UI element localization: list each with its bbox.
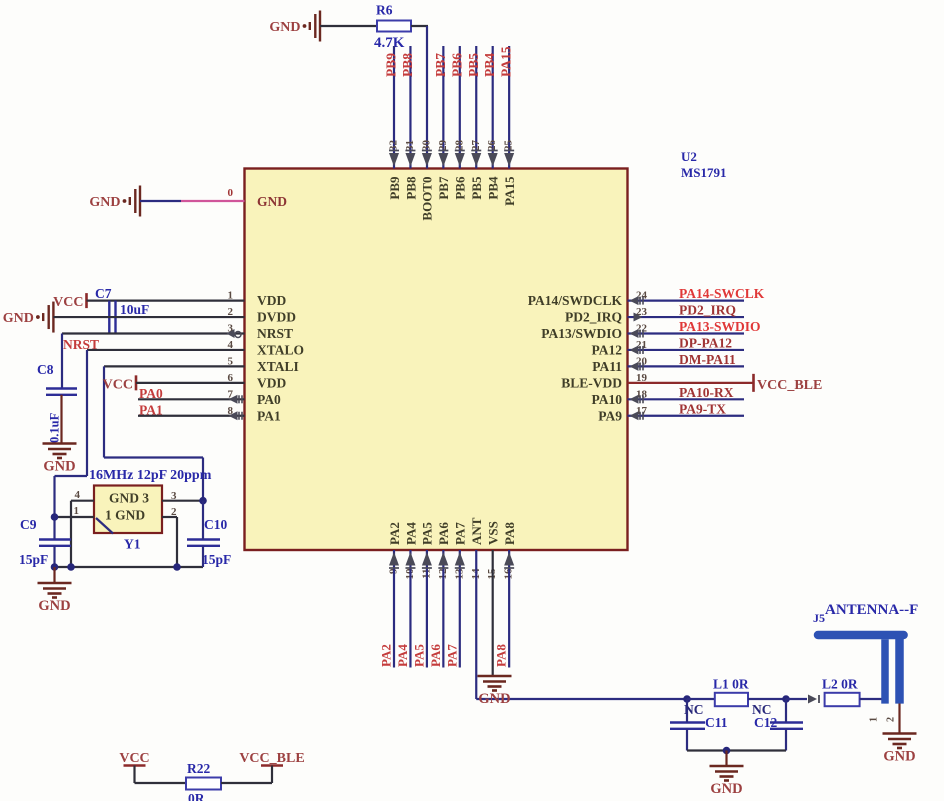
pin arrow 24 <box>630 296 644 305</box>
pin number 2 <box>228 306 234 318</box>
pin number 14 <box>470 568 482 580</box>
pin name VSS bot <box>486 521 501 545</box>
pin arrow J5 pin1 <box>808 695 819 704</box>
svg-text:0R: 0R <box>188 791 205 801</box>
crystal Y1 slash <box>96 518 113 534</box>
svg-text:1 GND: 1 GND <box>105 508 145 523</box>
svg-text:GND: GND <box>710 781 742 797</box>
net label PA8 bottom <box>494 644 509 667</box>
node junction GND antenna <box>723 747 731 755</box>
svg-text:PA15: PA15 <box>499 46 514 77</box>
pin arrow 22 <box>630 329 644 338</box>
svg-text:0.1uF: 0.1uF <box>48 412 62 443</box>
pin arrow top 30 <box>422 151 432 167</box>
wire right pin 17 <box>628 415 745 417</box>
node Y1 pin3 junction <box>199 497 207 505</box>
svg-text:PB4: PB4 <box>486 176 501 200</box>
svg-text:VCC: VCC <box>103 377 133 392</box>
net label PA10-RX <box>679 385 734 400</box>
net label PB5 <box>466 53 481 77</box>
pin name VDD left0 <box>257 293 286 308</box>
pin name PA0 left6 <box>257 392 281 407</box>
net label DM-PA11 <box>679 352 736 367</box>
pin name PA6 bot <box>436 522 451 545</box>
svg-text:PA14-SWCLK: PA14-SWCLK <box>679 286 765 301</box>
label L1 0R <box>713 677 749 692</box>
svg-text:32: 32 <box>388 140 400 152</box>
svg-text:15pF: 15pF <box>202 552 231 567</box>
svg-text:J5: J5 <box>813 611 825 625</box>
pin number 15 <box>486 568 498 580</box>
wire right pin 23 <box>628 316 745 318</box>
wire VCC to VDD <box>87 300 245 302</box>
net label PA1 <box>139 403 163 418</box>
svg-text:PB9: PB9 <box>384 53 399 77</box>
wire right pin 24 <box>628 300 745 302</box>
svg-text:4: 4 <box>75 489 81 501</box>
pin name XTALO left3 <box>257 342 304 357</box>
wire top pin 29 <box>442 46 444 169</box>
connector J5 designator <box>813 611 825 625</box>
node junction C12 <box>782 695 790 703</box>
pin arrow 20 <box>630 362 644 371</box>
pin arrow top 25 <box>504 151 514 167</box>
svg-text:PD2_IRQ: PD2_IRQ <box>565 310 622 325</box>
svg-text:15pF: 15pF <box>19 552 48 567</box>
label C10 <box>204 517 227 532</box>
node junction C11 <box>683 695 691 703</box>
wire top pin 27 <box>475 46 477 169</box>
svg-text:PA5: PA5 <box>411 644 426 667</box>
net label PA9-TX <box>679 401 726 416</box>
pin arrow bottom 12 <box>438 552 448 568</box>
svg-text:BLE-VDD: BLE-VDD <box>561 375 622 390</box>
pin number 20 <box>636 355 648 367</box>
resistor R22 <box>186 778 221 790</box>
net label PB7 <box>433 53 448 77</box>
pin number 4 <box>75 489 81 501</box>
wire bottom PA2 <box>393 550 395 668</box>
wire C10 bottom <box>202 546 204 567</box>
wire XTALI <box>104 366 245 500</box>
value 0.1uF <box>48 412 62 443</box>
wire right pin 22 <box>628 332 745 334</box>
pin number 23 <box>636 306 648 318</box>
ground GND below C9 <box>38 583 72 614</box>
label C7 <box>95 286 112 301</box>
net label PA6 bottom <box>428 644 443 667</box>
wire junction to L1 <box>687 698 715 700</box>
wire VSS <box>492 550 494 676</box>
pin number 10 <box>404 568 416 580</box>
ground GND antenna <box>883 734 917 765</box>
node junction Y1 pin4 bottom <box>67 563 75 571</box>
ground GND pin2 <box>3 302 54 333</box>
svg-text:0: 0 <box>228 187 234 199</box>
pin arrow top 26 <box>488 151 498 167</box>
pin name PB9 <box>387 176 402 200</box>
pin arrow top 28 <box>455 151 465 167</box>
pin name BOOT0 <box>420 177 435 221</box>
svg-text:XTALI: XTALI <box>257 359 299 374</box>
capacitor C7 <box>109 301 115 334</box>
power VCC R22 <box>119 751 149 783</box>
svg-text:NC: NC <box>684 702 704 717</box>
svg-text:C9: C9 <box>20 517 37 532</box>
wire right pin 20 <box>628 365 745 367</box>
svg-text:DM-PA11: DM-PA11 <box>679 352 736 367</box>
crystal Y1 inner text <box>105 491 149 523</box>
label C11 <box>705 715 728 730</box>
svg-text:C10: C10 <box>204 517 227 532</box>
svg-text:26: 26 <box>486 140 498 152</box>
svg-text:PB7: PB7 <box>436 176 451 200</box>
wire L1 right <box>748 698 786 700</box>
svg-text:PB4: PB4 <box>482 53 497 77</box>
wire ANT <box>476 550 687 699</box>
label NC C11 <box>684 702 704 717</box>
svg-text:PA14/SWDCLK: PA14/SWDCLK <box>528 293 623 308</box>
svg-text:PB6: PB6 <box>449 53 464 77</box>
pin number 3 <box>171 490 177 502</box>
pin number 25 <box>503 139 515 151</box>
pin name PB8 <box>403 176 418 200</box>
pin number 16 <box>503 568 515 580</box>
pin name PA9 <box>598 408 622 423</box>
wire Y1 pin4 <box>71 501 94 567</box>
pin arrow 21 <box>630 345 644 354</box>
node junction C9 bottom <box>51 563 59 571</box>
svg-text:31: 31 <box>404 140 416 151</box>
svg-text:PB8: PB8 <box>400 53 415 77</box>
svg-text:GND: GND <box>269 20 300 35</box>
svg-text:PB9: PB9 <box>387 176 402 200</box>
svg-text:PA8: PA8 <box>502 522 517 545</box>
svg-text:VCC_BLE: VCC_BLE <box>239 751 304 766</box>
wire right pin 18 <box>628 398 745 400</box>
capacitor C9 <box>39 540 71 546</box>
pin name PA12 <box>592 342 623 357</box>
wire Y1 pin3 <box>162 500 203 502</box>
pin number 1 Y1 <box>74 505 80 517</box>
pin name BLE-VDD <box>561 375 622 390</box>
wire GND to R6 <box>320 25 377 27</box>
value 0R R22 <box>188 791 205 801</box>
net label PB8 <box>400 53 415 77</box>
pin number 4 <box>228 339 234 351</box>
value 15pF C9 <box>19 552 48 567</box>
svg-text:U2: U2 <box>681 149 697 164</box>
node junction C10 bottom <box>173 563 181 571</box>
svg-text:XTALO: XTALO <box>257 342 304 357</box>
svg-text:10uF: 10uF <box>120 302 149 317</box>
wire XTALO <box>55 350 245 517</box>
svg-text:C12: C12 <box>754 715 777 730</box>
svg-text:ANT: ANT <box>469 517 484 545</box>
pin number 28 <box>453 140 465 152</box>
pin number 31 <box>404 140 416 151</box>
svg-text:PA8: PA8 <box>494 644 509 667</box>
wire bottom PA7 <box>459 550 461 668</box>
wire bottom PA6 <box>442 550 444 668</box>
svg-text:1: 1 <box>869 717 880 722</box>
pin arrow top 31 <box>405 151 415 167</box>
capacitor C12 <box>770 699 803 751</box>
svg-text:PA15: PA15 <box>502 176 517 206</box>
svg-text:GND 3: GND 3 <box>109 491 149 506</box>
wire to GND crystal <box>53 567 55 583</box>
svg-text:PA2: PA2 <box>387 522 402 545</box>
svg-text:DP-PA12: DP-PA12 <box>679 335 732 350</box>
svg-text:25: 25 <box>503 139 515 151</box>
wire crystal bottom <box>55 566 204 568</box>
pin name PA2 bot <box>387 522 402 545</box>
pin arrow bottom 13 <box>455 552 465 568</box>
svg-text:C8: C8 <box>37 362 54 377</box>
pin arrow bottom 9 <box>389 552 399 568</box>
pin number 24 <box>636 290 648 302</box>
wire PA1 <box>138 415 245 417</box>
inductor L2 <box>825 693 860 706</box>
wire GND pin0 <box>140 200 245 202</box>
net label PA7 bottom <box>444 644 459 667</box>
label NC C12 <box>752 702 772 717</box>
value 10uF <box>120 302 149 317</box>
svg-text:29: 29 <box>437 140 449 152</box>
pin number 29 <box>437 140 449 152</box>
net label NRST <box>63 337 99 352</box>
pin name PA15 <box>502 176 517 206</box>
pin name PA5 bot <box>420 522 435 545</box>
svg-text:Y1: Y1 <box>124 537 141 552</box>
svg-text:2: 2 <box>886 717 897 722</box>
svg-text:PB8: PB8 <box>403 176 418 200</box>
pin number 3 <box>228 323 234 335</box>
net label PA13-SWDIO <box>679 319 761 334</box>
antenna J5 symbol <box>818 635 904 704</box>
wire top pin 26 <box>492 46 494 169</box>
svg-text:GND: GND <box>883 749 915 765</box>
ground GND top-left <box>269 11 320 42</box>
svg-text:PA7: PA7 <box>453 522 468 545</box>
pin name PA14/SWDCLK <box>528 293 623 308</box>
inductor L1 <box>715 693 748 706</box>
ground GND below C8 <box>43 444 77 475</box>
pin number 6 <box>228 372 234 384</box>
pin arrow top 27 <box>471 151 481 167</box>
wire L2 to antenna <box>860 698 883 700</box>
svg-text:PB7: PB7 <box>433 53 448 77</box>
svg-text:28: 28 <box>453 140 465 152</box>
svg-text:C11: C11 <box>705 715 728 730</box>
svg-text:PA4: PA4 <box>395 644 410 667</box>
svg-text:PA0: PA0 <box>257 392 281 407</box>
svg-text:GND: GND <box>257 194 287 209</box>
pin number 30 <box>420 140 432 152</box>
resistor R6 <box>377 21 411 32</box>
pin arrow PA1 <box>229 411 243 420</box>
svg-text:PA12: PA12 <box>592 342 623 357</box>
label Y1 <box>124 537 141 552</box>
pin number 7 <box>228 388 234 400</box>
wire right pin 21 <box>628 349 745 351</box>
pin name DVDD left1 <box>257 310 296 325</box>
svg-text:PA6: PA6 <box>436 522 451 545</box>
label R22 <box>187 761 210 776</box>
pin name PB6 <box>453 176 468 200</box>
svg-text:BOOT0: BOOT0 <box>420 177 435 221</box>
svg-text:PA11: PA11 <box>592 359 622 374</box>
svg-text:PA1: PA1 <box>257 408 281 423</box>
svg-text:GND: GND <box>478 691 510 707</box>
pin name XTALI left4 <box>257 359 299 374</box>
svg-text:L1 0R: L1 0R <box>713 677 749 692</box>
pin name PD2_IRQ <box>565 310 622 325</box>
svg-text:NRST: NRST <box>257 326 293 341</box>
svg-text:GND: GND <box>38 598 70 614</box>
pin number 18 <box>636 388 648 400</box>
wire top pin 32 <box>393 46 395 169</box>
pin number 13 <box>453 568 465 580</box>
power VCC pin6 <box>103 375 136 392</box>
pin number 17 <box>636 405 648 417</box>
pin number 5 <box>228 355 234 367</box>
wire PA0 <box>138 398 245 400</box>
svg-text:PA13-SWDIO: PA13-SWDIO <box>679 319 761 334</box>
pin number 21 <box>636 339 647 351</box>
svg-text:DVDD: DVDD <box>257 310 296 325</box>
net label PA0 <box>139 386 163 401</box>
label C8 <box>37 362 54 377</box>
svg-text:ANTENNA--F: ANTENNA--F <box>825 602 918 618</box>
IC U2 body <box>245 169 628 551</box>
svg-text:PB6: PB6 <box>453 176 468 200</box>
pin name PA13/SWDIO <box>541 326 622 341</box>
wire VCC to VDD6 <box>136 382 245 384</box>
wire C9 bottom <box>53 546 55 567</box>
wire C10 top <box>202 501 204 540</box>
pin arrow PA0 <box>229 395 243 404</box>
pin arrow bottom 11 <box>422 552 432 568</box>
wire top pin 25 <box>508 46 510 169</box>
pin number 19 <box>636 372 648 384</box>
capacitor C11 <box>670 699 705 751</box>
svg-text:27: 27 <box>470 140 482 152</box>
pin name PA4 bot <box>403 522 418 545</box>
pin number 1 J5 <box>869 717 880 722</box>
pin name PB7 <box>436 176 451 200</box>
net label PB4 <box>482 53 497 77</box>
svg-text:PA10: PA10 <box>592 392 623 407</box>
wire C8 to GND <box>60 395 62 444</box>
wire NRST <box>62 334 245 388</box>
label C12 <box>754 715 777 730</box>
net label PB6 <box>449 53 464 77</box>
pin arrow NRST <box>227 329 242 338</box>
svg-text:PD2_IRQ: PD2_IRQ <box>679 303 736 318</box>
svg-text:PB5: PB5 <box>469 176 484 200</box>
wire VCC to R22 <box>135 782 187 784</box>
svg-text:VCC_BLE: VCC_BLE <box>757 378 822 393</box>
svg-text:PA6: PA6 <box>428 644 443 667</box>
label L2 0R <box>822 677 858 692</box>
svg-text:4.7K: 4.7K <box>374 35 405 51</box>
svg-text:GND: GND <box>3 311 34 326</box>
pin arrow 17 <box>630 411 644 420</box>
net label DP-PA12 <box>679 335 732 350</box>
ground GND pin0 <box>89 186 140 217</box>
pin arrow top 32 <box>389 151 399 167</box>
pin name PB5 <box>469 176 484 200</box>
wire R22 to VCC_BLE <box>221 782 272 784</box>
capacitor C8 <box>46 389 77 395</box>
IC U2 designator <box>681 149 727 180</box>
svg-text:PA5: PA5 <box>420 522 435 545</box>
svg-text:VDD: VDD <box>257 293 286 308</box>
pin number 2 Y1 <box>171 506 177 518</box>
pin arrow 18 <box>630 395 644 404</box>
wire Y1 pin2 <box>162 517 177 567</box>
wire GND to DVDD <box>53 316 244 318</box>
pin number 32 <box>388 140 400 152</box>
svg-text:VCC: VCC <box>53 295 83 310</box>
wire C9 top <box>53 517 55 540</box>
wire bottom PA8 <box>508 550 510 668</box>
svg-text:1: 1 <box>74 505 80 517</box>
svg-text:PA2: PA2 <box>379 644 394 667</box>
svg-text:PA13/SWDIO: PA13/SWDIO <box>541 326 622 341</box>
value 16MHz 12pF 20ppm <box>89 468 212 483</box>
pin arrow bottom 16 <box>504 552 514 568</box>
svg-text:PA9-TX: PA9-TX <box>679 401 726 416</box>
svg-text:C7: C7 <box>95 286 112 301</box>
pin name PA8 bot <box>502 522 517 545</box>
net label PA5 bottom <box>411 644 426 667</box>
pin arrow PD2_IRQ <box>634 313 643 322</box>
node C9 top junction <box>51 513 59 521</box>
net label PB9 <box>384 53 399 77</box>
pin arrow bottom 10 <box>405 552 415 568</box>
pin number 0 <box>228 187 234 199</box>
svg-text:16MHz 12pF 20ppm: 16MHz 12pF 20ppm <box>89 468 212 483</box>
value 4.7K <box>374 35 405 51</box>
pin number 26 <box>486 140 498 152</box>
pin number 2 J5 <box>886 717 897 722</box>
svg-text:30: 30 <box>420 140 432 152</box>
net label PA4 bottom <box>395 644 410 667</box>
power VCC_BLE R22 <box>239 751 304 783</box>
crystal Y1 body <box>94 486 162 534</box>
net label PD2_IRQ <box>679 303 736 318</box>
pin name PB4 <box>486 176 501 200</box>
svg-text:PA9: PA9 <box>598 408 622 423</box>
svg-text:L2 0R: L2 0R <box>822 677 858 692</box>
svg-text:R6: R6 <box>376 3 393 18</box>
pin number 27 <box>470 140 482 152</box>
svg-text:PA4: PA4 <box>403 522 418 545</box>
capacitor C10 <box>187 540 220 546</box>
wire bottom PA4 <box>409 550 411 668</box>
svg-text:R22: R22 <box>187 761 210 776</box>
pin number 1 <box>228 290 234 302</box>
wire bottom PA5 <box>426 550 428 668</box>
svg-text:VCC: VCC <box>119 751 149 766</box>
svg-text:PB5: PB5 <box>466 53 481 77</box>
label C9 <box>20 517 37 532</box>
label ANTENNA--F <box>825 602 918 618</box>
svg-text:GND: GND <box>89 195 120 210</box>
ground GND VSS <box>478 676 512 707</box>
